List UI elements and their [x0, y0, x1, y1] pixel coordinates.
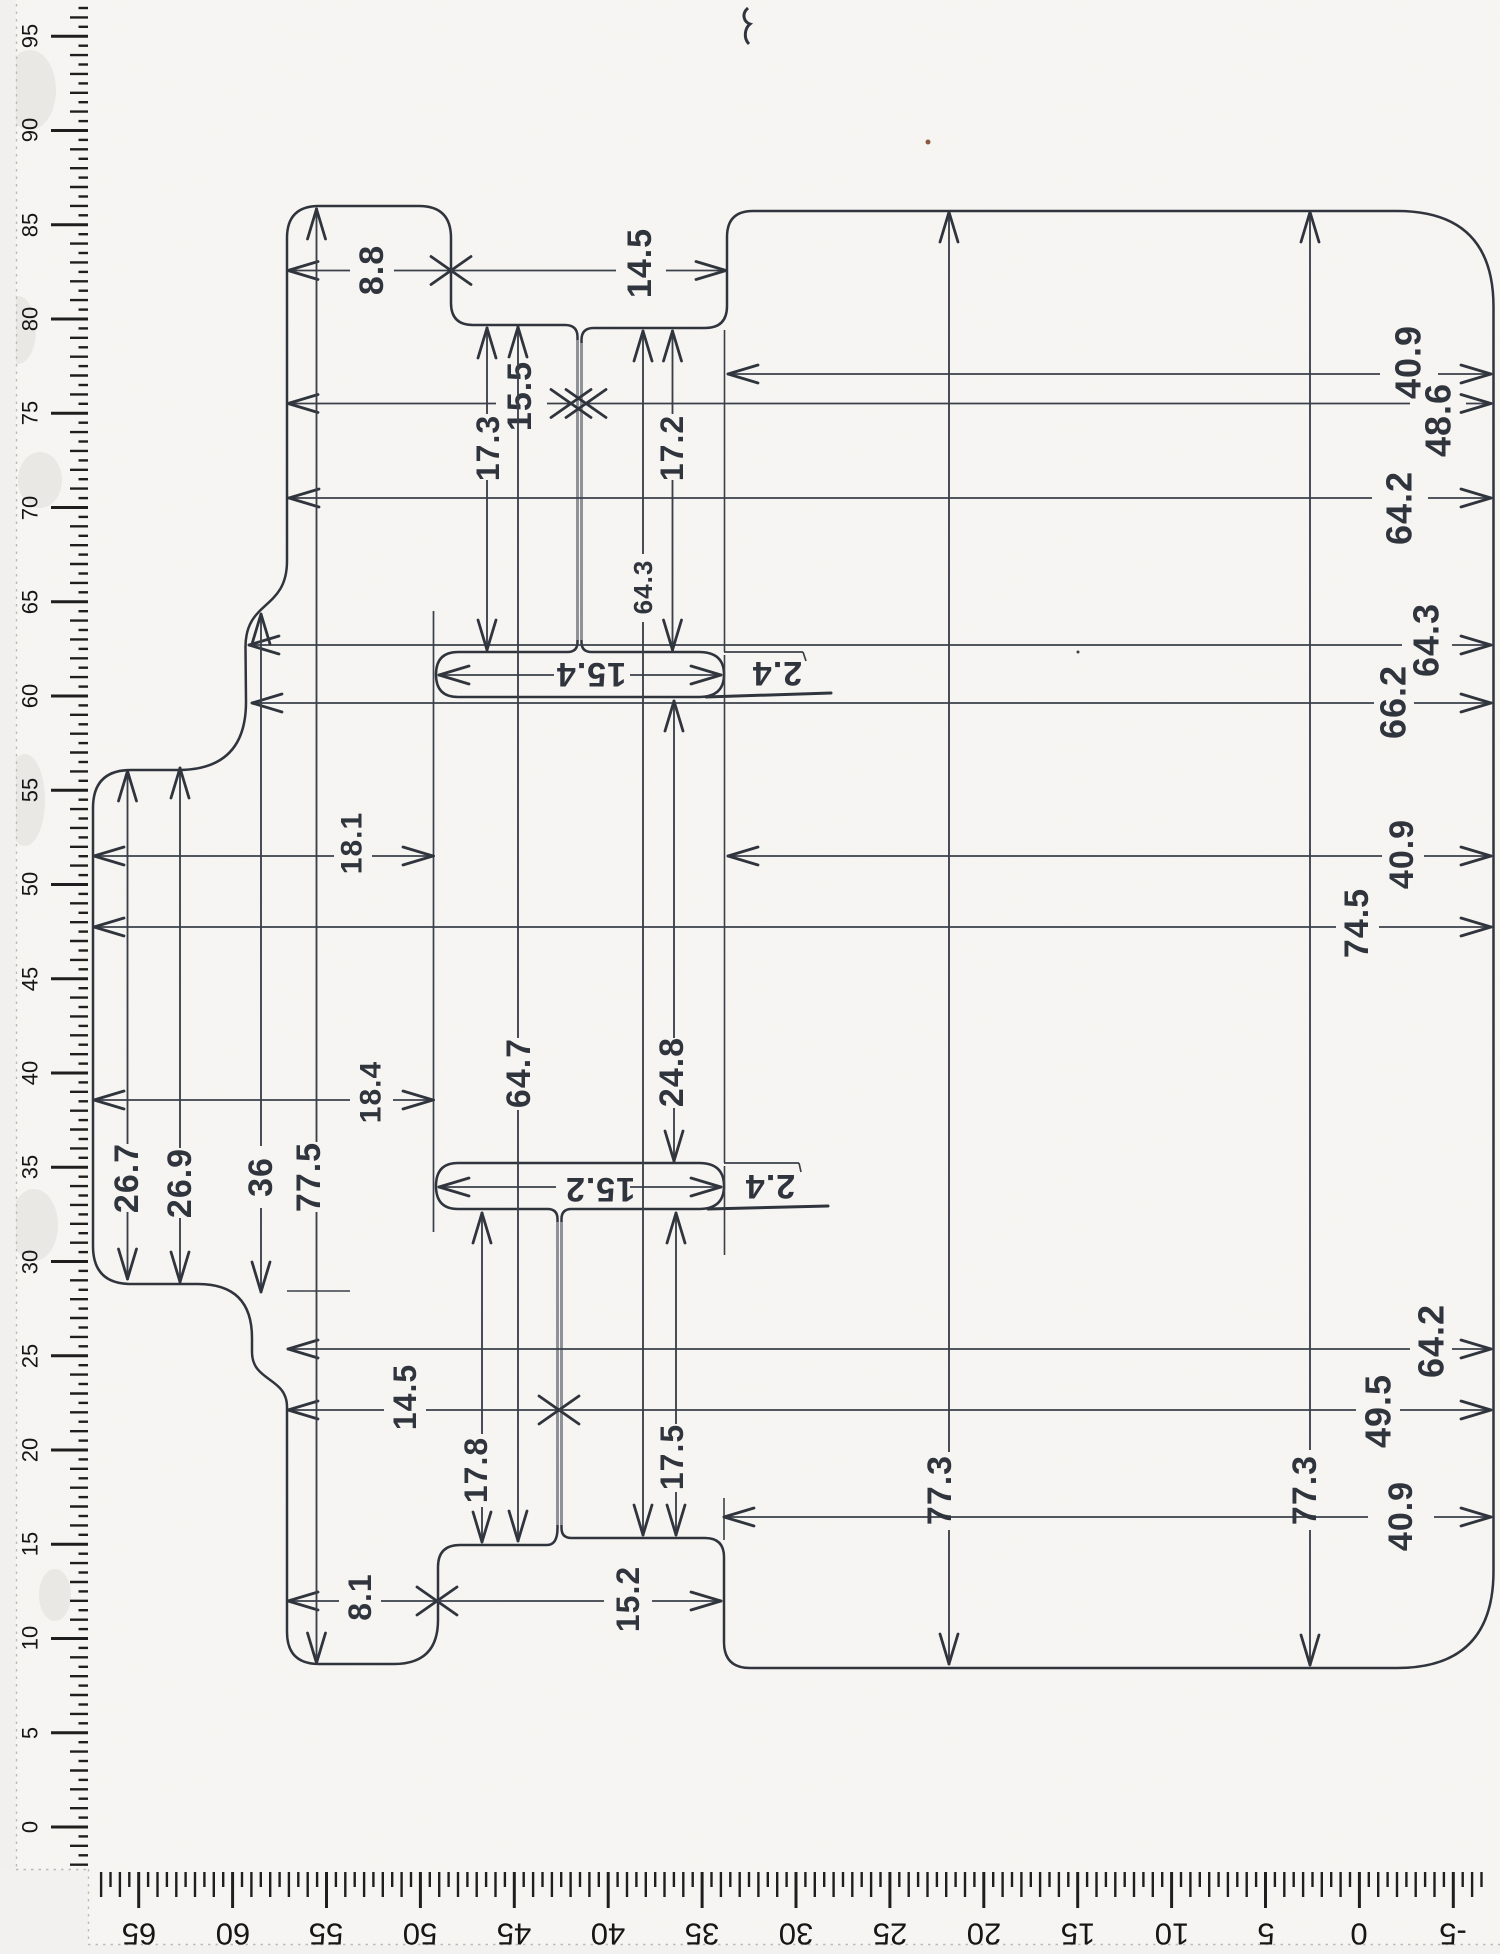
dim 15.5 (tab left to slit) [287, 361, 591, 431]
svg-text:64.7: 64.7 [500, 1038, 538, 1108]
dim 14.5 (tab to block gap, top) [451, 228, 727, 298]
dim 64.3 (notch to right edge) [248, 603, 1493, 677]
svg-text:77.3: 77.3 [921, 1455, 959, 1525]
svg-text:-5: -5 [1439, 1917, 1467, 1952]
dim 40.9 (tab edge to right edge, bottom) [723, 1481, 1493, 1551]
dim 18.1 (flange left to slot end) [93, 812, 435, 874]
svg-text:66.2: 66.2 [1373, 665, 1414, 739]
svg-text:17.2: 17.2 [654, 415, 690, 481]
dim 17.3 (shelf to upper slot) [470, 327, 506, 651]
svg-text:15.5: 15.5 [501, 361, 539, 431]
svg-text:17.8: 17.8 [458, 1437, 494, 1503]
dim 36 (notch to lower curve) [242, 613, 280, 1293]
dim 26.9 (flange height) [161, 767, 199, 1283]
svg-text:95: 95 [18, 24, 43, 48]
svg-text:10: 10 [1155, 1917, 1189, 1952]
dim 77.3 (block height, right line) [1286, 211, 1324, 1666]
svg-text:0: 0 [18, 1821, 43, 1833]
extension line at x=724 (right block edge) [724, 330, 726, 1255]
svg-text:30: 30 [18, 1250, 43, 1274]
svg-text:40.9: 40.9 [1388, 325, 1429, 399]
dim 17.2 (shelf to upper slot) [654, 330, 690, 651]
svg-text:55: 55 [309, 1917, 343, 1952]
dim 64.2 (left edge to right edge, lower) [287, 1304, 1493, 1378]
svg-text:64.2: 64.2 [1411, 1304, 1452, 1378]
dim 64.2 (left edge to right edge, upper) [288, 471, 1493, 545]
pen squiggle top [744, 8, 750, 44]
svg-text:15: 15 [1061, 1917, 1095, 1952]
dim 15.4 (upper slot length) [439, 655, 722, 693]
svg-text:8.1: 8.1 [342, 1573, 378, 1620]
svg-text:5: 5 [1257, 1917, 1274, 1952]
dim 26.7 (flange height) [108, 770, 146, 1280]
svg-text:18.1: 18.1 [336, 812, 369, 874]
svg-text:5: 5 [18, 1727, 43, 1739]
dim 74.5 (flange left to right edge) [93, 888, 1493, 958]
svg-text:70: 70 [18, 496, 43, 520]
dim 77.5 (overall height at x=316) [290, 208, 328, 1664]
svg-text:25: 25 [873, 1917, 907, 1952]
svg-text:15.2: 15.2 [565, 1170, 635, 1208]
svg-text:10: 10 [18, 1626, 43, 1650]
svg-text:65: 65 [18, 590, 43, 614]
dim 8.1 (bottom tab width) [287, 1573, 457, 1620]
svg-text:40: 40 [18, 1061, 43, 1085]
dim 2.4 callout (upper slot height) [706, 652, 831, 697]
svg-text:0: 0 [1350, 1917, 1367, 1952]
dim 8.8 (top tab width) [287, 245, 471, 295]
dim 64.3 (shelf to bottom shelf) [628, 330, 658, 1536]
svg-text:77.5: 77.5 [290, 1142, 328, 1212]
svg-text:17.3: 17.3 [470, 415, 506, 481]
svg-text:49.5: 49.5 [1358, 1374, 1399, 1448]
svg-text:15.4: 15.4 [556, 655, 626, 693]
dim 24.8 (between slots) [653, 700, 691, 1162]
svg-text:64.3: 64.3 [628, 560, 658, 615]
svg-text:8.8: 8.8 [353, 245, 391, 295]
svg-text:45: 45 [18, 967, 43, 991]
svg-text:24.8: 24.8 [653, 1037, 691, 1107]
part outline (closed profile with two slots and slits) [93, 206, 1494, 1668]
svg-text:90: 90 [18, 118, 43, 142]
bottom ruler numbers 65--5 [122, 1917, 1467, 1952]
dim 48.6 (slit to right edge) [566, 383, 1493, 457]
svg-text:30: 30 [779, 1917, 813, 1952]
extension tick for dim 40.9 bottom [723, 1498, 725, 1540]
svg-text:55: 55 [18, 778, 43, 802]
svg-text:36: 36 [242, 1157, 280, 1197]
dim 15.2 (lower slot length) [439, 1170, 722, 1208]
svg-text:80: 80 [18, 307, 43, 331]
svg-text:26.9: 26.9 [161, 1148, 199, 1218]
svg-text:20: 20 [967, 1917, 1001, 1952]
svg-text:15.2: 15.2 [610, 1566, 646, 1632]
dim 18.4 (flange left to slot end, lower) [93, 1061, 435, 1123]
svg-text:40.9: 40.9 [1382, 1481, 1420, 1551]
extension line at x=433 (slot left end) [433, 611, 435, 1232]
svg-text:26.7: 26.7 [108, 1143, 146, 1213]
svg-text:64.2: 64.2 [1379, 471, 1420, 545]
svg-text:60: 60 [18, 684, 43, 708]
dim 14.5 (left edge to slit, bottom) [287, 1364, 579, 1430]
lower slit walls [558, 1222, 562, 1525]
svg-text:50: 50 [403, 1917, 437, 1952]
dim 40.9 (block left to right edge, middle) [727, 819, 1493, 889]
dim 2.4 callout (lower slot height) [708, 1163, 828, 1209]
bottom ruler (cm scale -5-65, ticks) [101, 1872, 1481, 1908]
upper slit walls [578, 340, 582, 640]
svg-text:2.4: 2.4 [745, 1167, 795, 1205]
svg-text:75: 75 [18, 401, 43, 425]
svg-text:14.5: 14.5 [387, 1364, 423, 1430]
dim 17.8 (lower slot to shelf) [458, 1212, 494, 1543]
speck [926, 140, 931, 145]
svg-text:14.5: 14.5 [621, 228, 659, 298]
svg-text:50: 50 [18, 872, 43, 896]
svg-text:77.3: 77.3 [1286, 1455, 1324, 1525]
dim 77.3 (block height, left line) [921, 211, 959, 1665]
left ruler numbers 0-95 [18, 24, 43, 1833]
dim 15.2 (bottom tab to block tab) [437, 1566, 722, 1632]
dot on dim line [1077, 651, 1080, 654]
svg-text:35: 35 [18, 1155, 43, 1179]
stray pencil dash [287, 1290, 350, 1292]
dim 64.7 (shelf to bottom shelf) [500, 326, 538, 1542]
svg-text:17.5: 17.5 [654, 1424, 690, 1490]
svg-text:35: 35 [685, 1917, 719, 1952]
dim 17.5 (lower slot to shelf) [654, 1212, 690, 1536]
svg-text:74.5: 74.5 [1338, 888, 1376, 958]
svg-text:15: 15 [18, 1532, 43, 1556]
left ruler (cm scale 0-95, ticks) [51, 8, 88, 1865]
svg-text:40: 40 [591, 1917, 625, 1952]
dim 40.9 (block left to right edge, top) [727, 325, 1493, 399]
svg-text:45: 45 [497, 1917, 531, 1952]
dim 66.2 (notch to right edge) [251, 665, 1493, 739]
dim 49.5 (slit to right edge, bottom) [559, 1374, 1493, 1448]
svg-text:2.4: 2.4 [752, 654, 802, 692]
svg-text:18.4: 18.4 [355, 1061, 388, 1123]
svg-text:25: 25 [18, 1344, 43, 1368]
svg-text:60: 60 [216, 1917, 250, 1952]
svg-text:85: 85 [18, 213, 43, 237]
svg-text:20: 20 [18, 1438, 43, 1462]
svg-text:40.9: 40.9 [1383, 819, 1421, 889]
svg-text:65: 65 [122, 1917, 156, 1952]
